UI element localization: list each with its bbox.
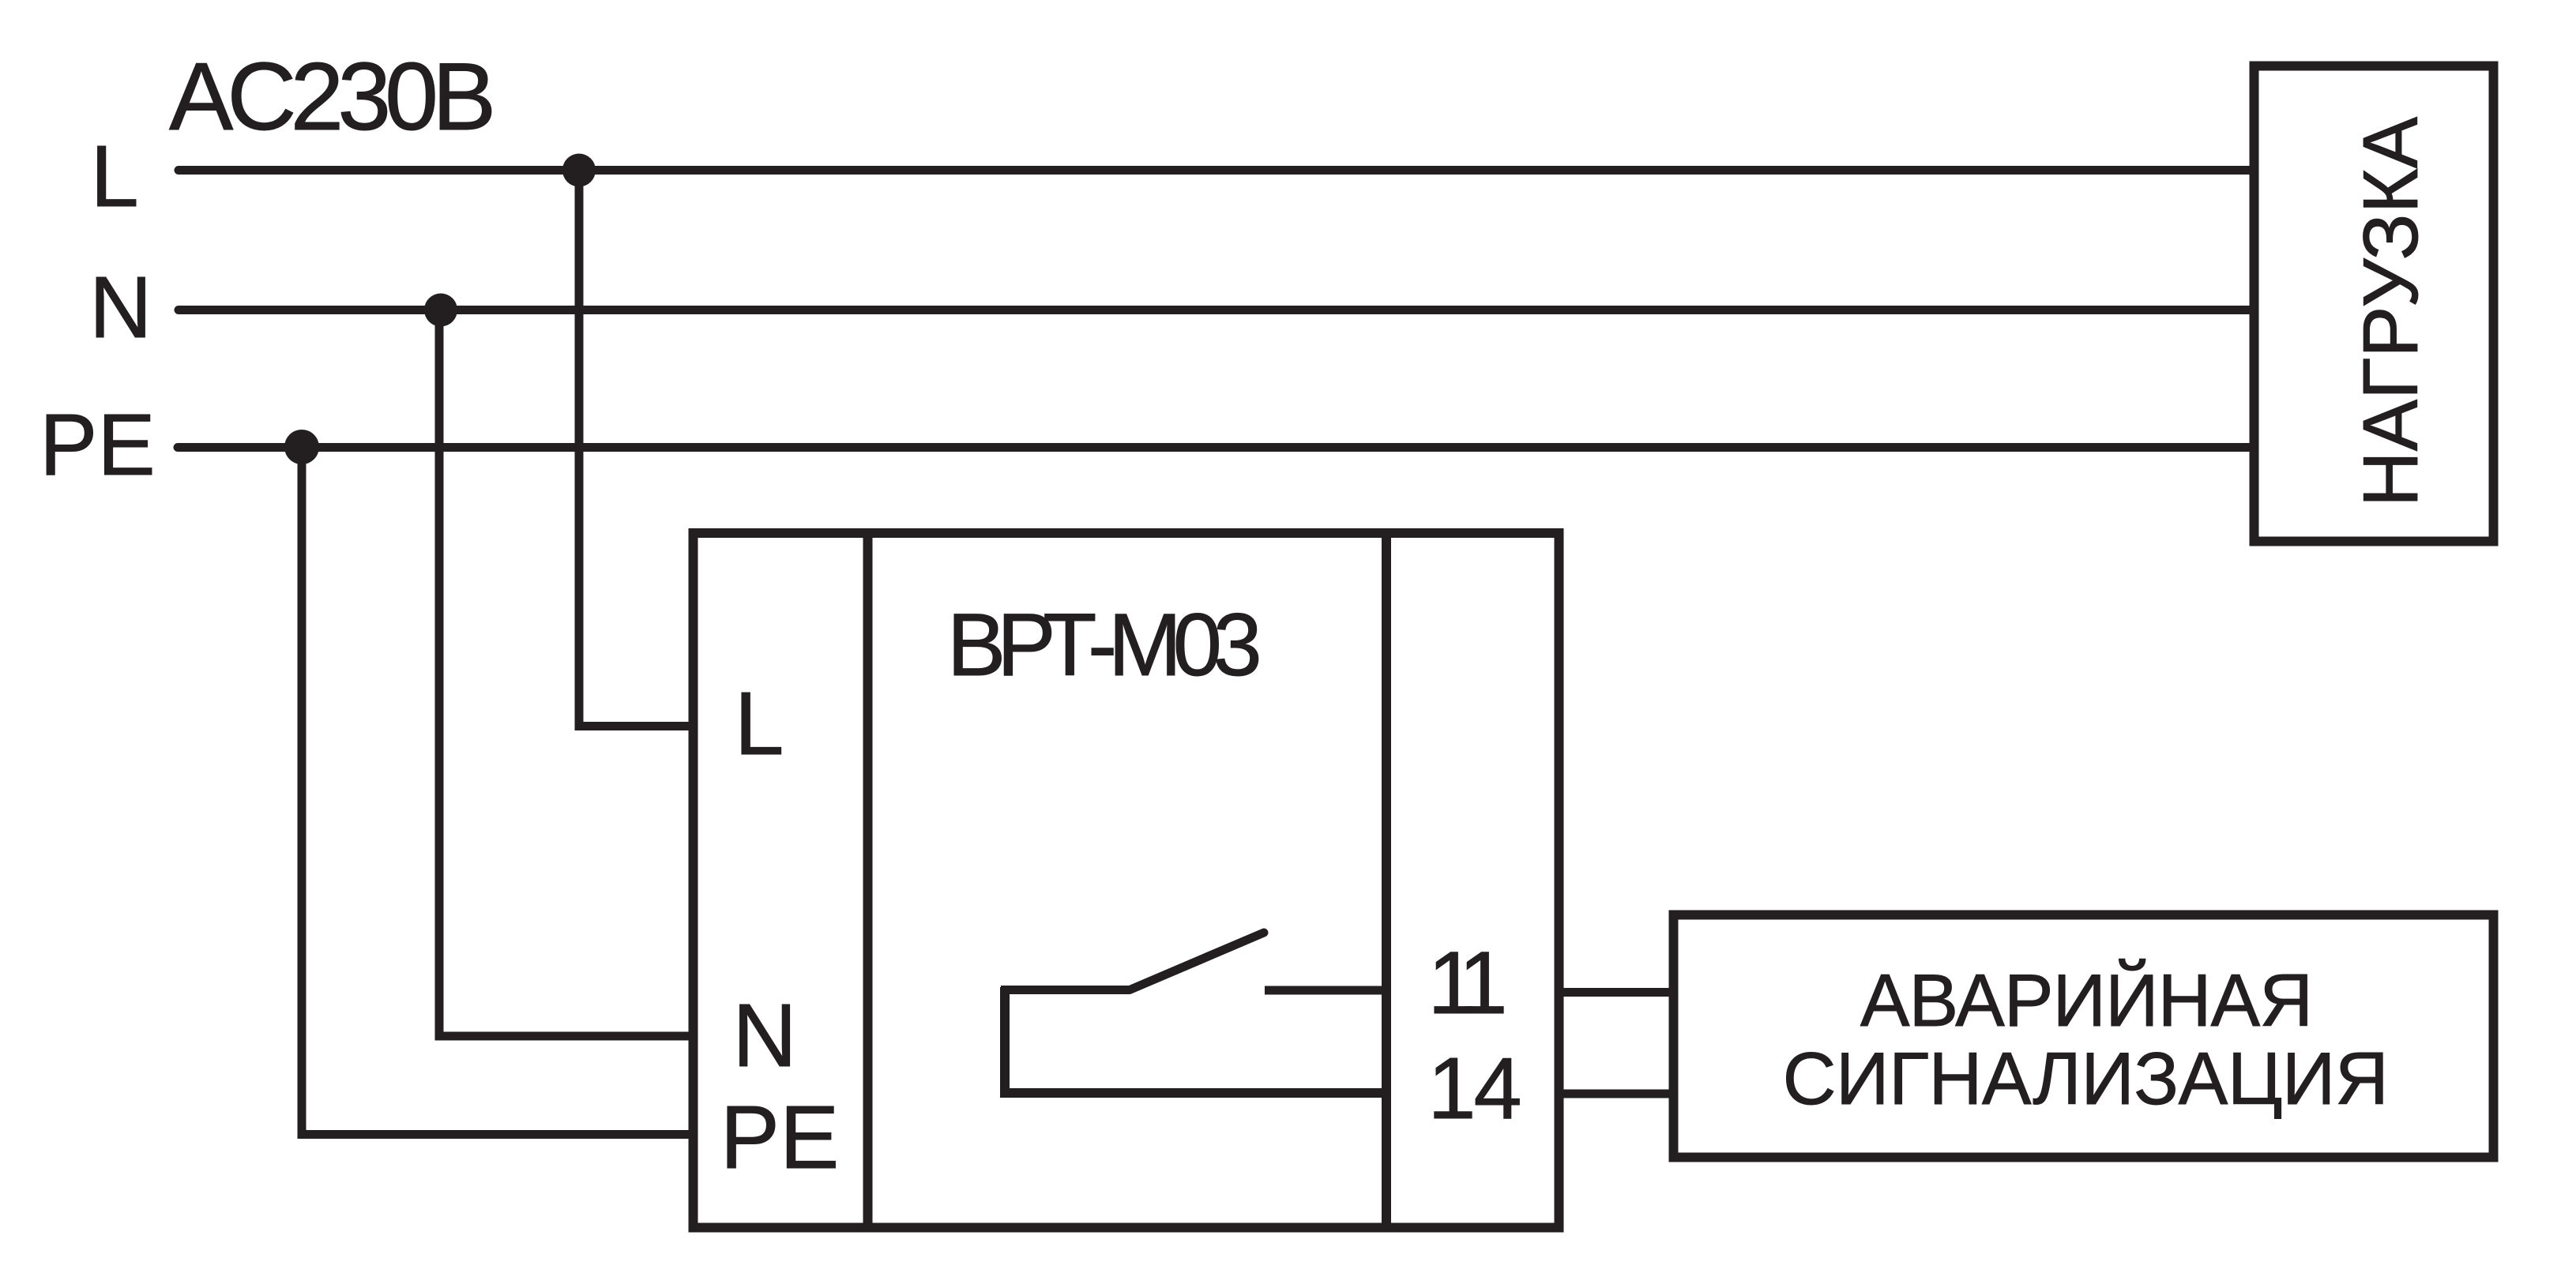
svg-text:ВРТ-М03: ВРТ-М03 [947,595,1259,694]
svg-text:N: N [732,986,797,1085]
wire terminal 14 to alarm box [1559,1090,1674,1098]
wire N bus [179,306,2250,314]
wire terminal 11 to alarm box [1559,988,1674,997]
relay left terminal strip divider [863,528,873,1232]
svg-text:PE: PE [39,396,156,494]
wire N drop to relay terminal N [439,310,693,1037]
relay U1 BPT-M03 outline box [694,533,1559,1228]
svg-text:L: L [735,674,784,773]
svg-text:НАГРУЗКА: НАГРУЗКА [2347,116,2434,507]
node L junction [562,154,596,187]
relay contact fixed lead 11 (left) [1001,986,1130,994]
relay right terminal strip divider [1382,528,1391,1232]
svg-text:L: L [91,128,139,225]
load box (НАГРУЗКА) [2254,66,2494,542]
wire L bus [179,166,2250,175]
relay contact common return (U shape to terminal 14) [1005,987,1386,1093]
node N junction [424,294,457,327]
svg-text:N: N [89,259,152,356]
node PE junction [284,430,319,464]
svg-text:11: 11 [1427,933,1503,1032]
relay contact blade (open switch) [1130,933,1264,990]
svg-text:14: 14 [1427,1040,1519,1137]
svg-text:СИГНАЛИЗАЦИЯ: СИГНАЛИЗАЦИЯ [1783,1037,2389,1120]
wire L drop to relay terminal L [579,171,693,727]
wire PE drop to relay terminal PE [302,447,693,1135]
svg-text:PE: PE [720,1087,840,1187]
alarm box (АВАРИЙНАЯ СИГНАЛИЗАЦИЯ) [1674,915,2494,1158]
wire PE bus [178,443,2250,452]
svg-text:AC230B: AC230B [169,43,491,150]
svg-text:АВАРИЙНАЯ: АВАРИЙНАЯ [1860,958,2312,1042]
relay contact fixed lead (right) [1265,986,1386,995]
